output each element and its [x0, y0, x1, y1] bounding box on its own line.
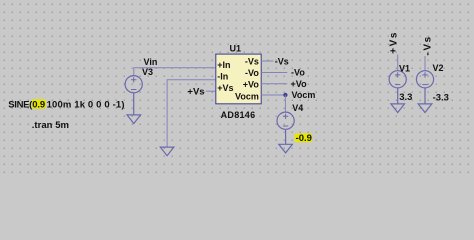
voltage source V3: [125, 76, 142, 115]
label V1: [399, 63, 410, 73]
wire V2 top: [424, 56, 426, 71]
wire Vocm to V4: [284, 95, 286, 112]
svg-text:-Vo: -Vo: [291, 68, 305, 78]
svg-text:V3: V3: [142, 67, 153, 77]
value 3.3: [399, 92, 412, 103]
svg-text:+Vo: +Vo: [243, 80, 260, 90]
svg-text:U1: U1: [230, 43, 242, 53]
pin label +Vs: [217, 83, 233, 93]
svg-text:Vin: Vin: [144, 57, 158, 67]
ground (V3): [127, 115, 141, 124]
net label -Vs: [275, 57, 289, 67]
ground (-In): [160, 147, 174, 156]
svg-text:+In: +In: [217, 60, 230, 70]
svg-text:-0.9: -0.9: [296, 133, 312, 144]
svg-text:+Vs: +Vs: [388, 31, 399, 54]
wire V1 top: [397, 55, 399, 71]
net label -Vo: [291, 68, 305, 78]
ground (V4): [279, 144, 293, 153]
pin label +In: [217, 60, 230, 70]
wire -Vs stub: [261, 60, 273, 62]
svg-text:AD8146: AD8146: [221, 110, 256, 120]
wire +Vs label to U1: [206, 90, 216, 92]
label V4: [292, 103, 303, 113]
net label -Vs (rotated, V2): [422, 35, 433, 55]
voltage source V4: [277, 112, 294, 144]
voltage source V1: [389, 71, 406, 104]
spice directive .tran 5m: [32, 120, 69, 131]
svg-text:-Vs: -Vs: [422, 35, 433, 55]
wire Vocm stub: [261, 94, 285, 96]
value -0.9 (highlighted): [295, 133, 313, 144]
svg-text:-Vs: -Vs: [275, 57, 289, 67]
op-amp U1 AD8146 body: [216, 54, 261, 104]
svg-text:-In: -In: [217, 71, 228, 81]
label V3: [142, 67, 153, 77]
svg-text:Vocm: Vocm: [292, 90, 316, 100]
label U1: [230, 43, 242, 53]
svg-text:100m 1k 0 0 0 -1): 100m 1k 0 0 0 -1): [47, 100, 125, 111]
wire Vin: V3 top to U1 +In: [134, 68, 216, 76]
svg-text:3.3: 3.3: [399, 92, 412, 103]
voltage source V2: [416, 71, 433, 104]
svg-text:Vocm: Vocm: [235, 91, 259, 101]
ground (V1): [391, 104, 405, 113]
svg-text:.tran 5m: .tran 5m: [32, 120, 69, 131]
wire -Vo stub: [261, 72, 287, 74]
net label +Vo: [291, 79, 308, 89]
svg-text:+Vs: +Vs: [217, 83, 233, 93]
wire -In to ground: [167, 80, 216, 147]
label V2: [433, 63, 444, 73]
pin label +Vo: [243, 80, 260, 90]
wire +Vo stub: [261, 83, 287, 85]
ground (V2): [418, 104, 432, 113]
svg-text:-Vo: -Vo: [245, 68, 259, 78]
svg-text:0.9: 0.9: [32, 100, 45, 111]
spice directive SINE(0.9 100m 1k 0 0 0 -1): [8, 99, 124, 110]
pin label -Vs: [245, 56, 259, 66]
svg-text:+Vo: +Vo: [291, 79, 308, 89]
svg-text:-3.3: -3.3: [433, 92, 449, 103]
pin label Vocm: [235, 91, 259, 101]
pin label -Vo: [245, 68, 259, 78]
net label Vocm: [292, 90, 316, 100]
value -3.3: [433, 92, 449, 103]
junction node Vocm: [283, 93, 287, 97]
label AD8146: [221, 110, 256, 120]
svg-text:+Vs: +Vs: [187, 86, 204, 97]
pin label -In: [217, 71, 228, 81]
svg-text:V1: V1: [399, 63, 410, 73]
net label +Vs (left of U1): [187, 86, 204, 97]
svg-text:V2: V2: [433, 63, 444, 73]
svg-text:SINE(: SINE(: [8, 100, 33, 111]
net label Vin: [144, 57, 158, 67]
svg-text:V4: V4: [292, 103, 303, 113]
net label +Vs (rotated, V1): [388, 31, 399, 54]
svg-text:-Vs: -Vs: [245, 56, 259, 66]
